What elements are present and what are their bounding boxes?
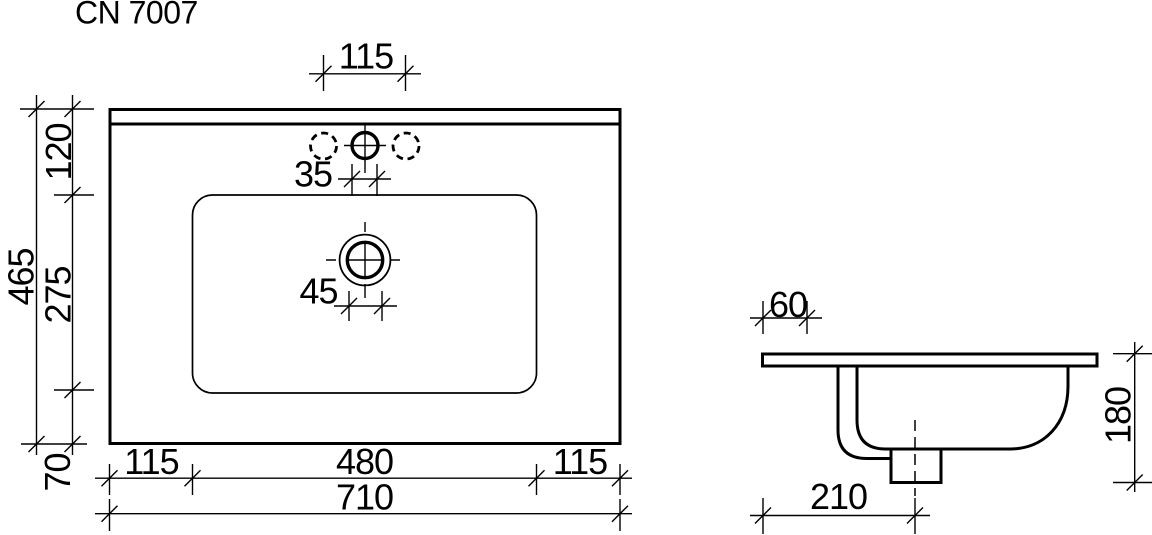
drain inner circle [347,242,382,277]
bowl outer wall [838,366,891,459]
svg-text:CN 7007: CN 7007 [75,0,198,31]
bottom dimension row 2 (710) [95,499,632,531]
bottom dimension row 1 (115 / 480 / 115) [95,464,632,495]
svg-text:60: 60 [769,284,807,325]
basin back edge line [110,123,620,126]
svg-text:465: 465 [1,248,42,305]
bowl inner wall [857,366,891,449]
dimension 60 (side) [750,301,822,334]
drain outer circle [340,235,391,286]
countertop slab [763,354,1098,366]
dimension 35 (faucet hole dia) [338,164,391,196]
drain centerline horizontal [326,259,400,261]
svg-text:210: 210 [810,476,867,517]
bowl right profile [941,366,1068,449]
faucet hole [352,133,378,159]
svg-text:35: 35 [294,154,332,195]
drain centerline vertical [364,222,366,298]
svg-text:115: 115 [553,441,607,482]
basin outline [110,110,620,444]
drain trap box [891,449,941,483]
optional hole right (dashed) [393,133,419,159]
svg-text:45: 45 [299,271,337,312]
svg-text:120: 120 [38,123,79,180]
faucet crosshair [364,123,366,174]
optional hole left (dashed) [311,133,337,159]
dimension 180 (side, vertical) [1113,342,1152,492]
dimension 45 (drain dia) [334,291,397,321]
svg-text:710: 710 [336,477,393,518]
dimension 210 (side) [750,498,930,534]
left vertical dimension lines (465 / 120,275,70) [20,95,94,455]
svg-text:115: 115 [124,441,178,482]
svg-text:70: 70 [37,453,78,491]
bowl rounded rectangle [193,195,537,393]
svg-text:115: 115 [339,36,393,77]
dimension 115 (top, faucet holes) [309,55,421,91]
drain centerline (dashed) [914,420,916,496]
svg-text:180: 180 [1098,387,1139,444]
svg-text:275: 275 [38,266,79,323]
